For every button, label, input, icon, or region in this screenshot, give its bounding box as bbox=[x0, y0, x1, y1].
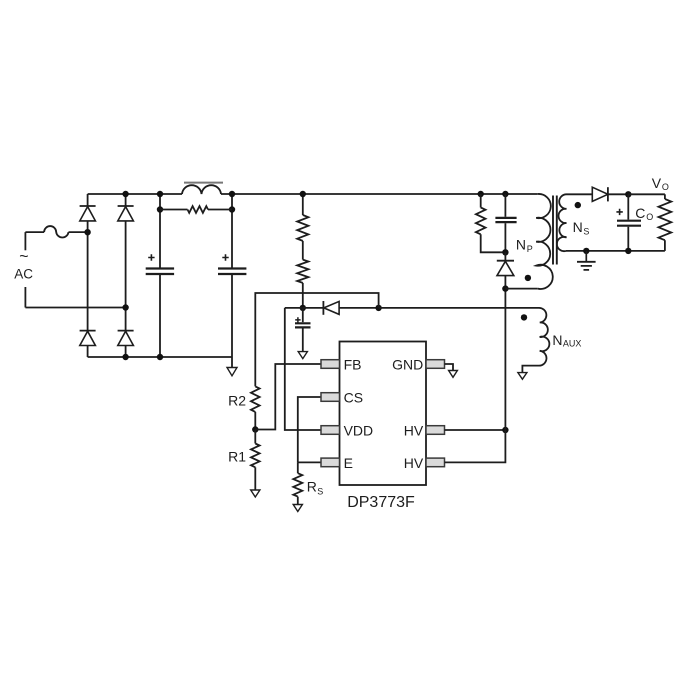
resistor load bbox=[659, 194, 672, 251]
wire secondary bottom rail bbox=[566, 250, 665, 252]
svg-text:N: N bbox=[573, 219, 583, 235]
op-amp U1 DP3773F body bbox=[340, 342, 427, 486]
resistor RS bbox=[293, 462, 302, 504]
diode D4 bridge lower-right bbox=[118, 331, 134, 346]
pin CS bbox=[321, 393, 340, 402]
wire bulk cap C1 column bbox=[159, 194, 161, 357]
svg-text:E: E bbox=[344, 455, 353, 471]
AC source left upper lead bbox=[24, 232, 26, 250]
ground arrow GND pin bbox=[449, 371, 458, 378]
junction bridge bottom rail bbox=[122, 354, 128, 360]
pin GND bbox=[426, 360, 445, 369]
pin VDD bbox=[321, 426, 340, 435]
svg-text:~: ~ bbox=[19, 249, 28, 266]
svg-text:HV: HV bbox=[404, 423, 424, 439]
capacitor clamp bbox=[495, 194, 516, 252]
ground arrow bottom rail bbox=[227, 357, 237, 376]
svg-text:S: S bbox=[317, 486, 323, 496]
diode VDD rectifier bbox=[303, 301, 379, 315]
fuse F1 bbox=[44, 226, 68, 237]
transformer core bbox=[553, 196, 557, 265]
wire VDD node left stub bbox=[285, 307, 303, 309]
wire top rail after inductor bbox=[221, 193, 538, 195]
inductor L1 input filter bbox=[182, 185, 221, 194]
wire R2 to junction bbox=[254, 412, 256, 430]
wire bottom input rail bbox=[88, 356, 232, 358]
wire FB pin run bbox=[255, 364, 321, 430]
diode D3 bridge lower-left bbox=[80, 331, 96, 346]
earth ground secondary bbox=[577, 251, 596, 270]
label VO bbox=[652, 175, 669, 192]
resistor startup upper bbox=[297, 194, 308, 241]
svg-text:R1: R1 bbox=[228, 448, 246, 464]
capacitor C2 plates bbox=[218, 269, 246, 275]
wire output top bbox=[628, 193, 665, 195]
label NS bbox=[573, 219, 590, 237]
junction secondary ground node bbox=[583, 248, 589, 254]
svg-text:CS: CS bbox=[344, 390, 363, 406]
AC source left lower lead bbox=[24, 287, 26, 308]
pin HV lower bbox=[426, 458, 445, 467]
capacitor VDD plus sign bbox=[295, 317, 300, 322]
wire AC bottom to bridge bbox=[25, 307, 125, 309]
junction aux feedback node bbox=[375, 305, 381, 311]
inductor L1 core bar bbox=[184, 182, 223, 184]
junction bridge top rail bbox=[122, 191, 128, 197]
diode D1 bridge upper-left bbox=[80, 206, 96, 221]
label NP bbox=[516, 236, 533, 254]
junction primary bottom node bbox=[502, 285, 508, 291]
junction AC-bridge bottom node bbox=[122, 304, 128, 310]
wire CS pin run bbox=[298, 397, 321, 462]
svg-text:FB: FB bbox=[344, 357, 362, 373]
junction fuse-bridge node bbox=[84, 229, 90, 235]
capacitor CO plus sign bbox=[616, 209, 622, 215]
label RS bbox=[307, 479, 323, 497]
svg-text:AUX: AUX bbox=[563, 338, 582, 348]
wire bulk cap C2 column bbox=[231, 194, 233, 357]
wire GND pin to ground bbox=[445, 364, 454, 371]
diode output rectifier bbox=[592, 187, 628, 201]
diode D2 bridge upper-right bbox=[118, 206, 134, 221]
junction clamp resistor top bbox=[478, 191, 484, 197]
pin HV upper bbox=[426, 426, 445, 435]
pin FB bbox=[321, 360, 340, 369]
junction C2 damping resistor node bbox=[229, 206, 235, 212]
wire E pin run bbox=[298, 461, 321, 463]
ground arrow RS bbox=[293, 505, 302, 512]
resistor R1 bbox=[251, 430, 260, 491]
svg-text:AC: AC bbox=[14, 267, 33, 282]
junction HV primary node bbox=[502, 427, 508, 433]
AC source terminal top wire bbox=[25, 231, 44, 233]
ground arrow VDD cap bbox=[298, 352, 307, 359]
junction VDD node bbox=[300, 305, 306, 311]
ground arrow NAUX bbox=[518, 373, 527, 380]
polarity dot NP bbox=[525, 275, 531, 281]
svg-text:GND: GND bbox=[392, 357, 423, 373]
winding NS secondary bbox=[557, 194, 592, 251]
capacitor C1 plates bbox=[146, 269, 174, 275]
pin E bbox=[321, 458, 340, 467]
junction output node bbox=[625, 191, 631, 197]
junction R1 R2 FB node bbox=[252, 426, 258, 432]
label CO bbox=[635, 205, 653, 222]
svg-text:N: N bbox=[516, 236, 526, 252]
capacitor C1 plus sign bbox=[148, 254, 154, 260]
winding NAUX auxiliary bbox=[379, 308, 550, 373]
junction startup chain top rail bbox=[300, 191, 306, 197]
resistor clamp bbox=[476, 194, 506, 252]
wire bridge left column bbox=[87, 194, 89, 357]
polarity dot NS bbox=[575, 202, 581, 208]
diode clamp bbox=[497, 252, 514, 288]
svg-text:C: C bbox=[635, 205, 645, 221]
junction clamp RC node bbox=[502, 249, 508, 255]
svg-text:V: V bbox=[652, 175, 662, 191]
svg-text:R2: R2 bbox=[228, 393, 246, 409]
wire aux node to divider bbox=[255, 293, 378, 386]
svg-text:VDD: VDD bbox=[344, 423, 374, 439]
junction clamp cap top bbox=[502, 191, 508, 197]
svg-text:O: O bbox=[662, 182, 669, 192]
wire fuse to bridge bbox=[69, 231, 88, 233]
svg-text:S: S bbox=[583, 226, 589, 236]
junction C1 bottom rail bbox=[157, 354, 163, 360]
wire HV upper pin run bbox=[445, 429, 506, 431]
capacitor C2 plus sign bbox=[222, 254, 228, 260]
winding NP primary bbox=[505, 194, 552, 289]
resistor startup lower bbox=[297, 241, 308, 308]
capacitor VDD plates bbox=[295, 308, 311, 352]
junction C1 top rail bbox=[157, 191, 163, 197]
wire top DC bus rail bbox=[88, 193, 182, 195]
svg-text:N: N bbox=[552, 332, 562, 348]
label NAUX bbox=[552, 332, 581, 348]
junction CO bottom bbox=[625, 248, 631, 254]
resistor R2 bbox=[251, 386, 260, 412]
svg-text:O: O bbox=[646, 212, 653, 222]
svg-text:R: R bbox=[307, 479, 317, 495]
ground arrow R1 bbox=[251, 490, 260, 497]
wire bridge right column bbox=[125, 194, 127, 357]
svg-text:HV: HV bbox=[404, 455, 424, 471]
wire primary return vertical bbox=[445, 289, 506, 463]
resistor damping across L1 bbox=[160, 206, 232, 213]
svg-text:DP3773F: DP3773F bbox=[347, 494, 415, 511]
wire VDD pin run bbox=[285, 308, 321, 430]
junction C2 top rail bbox=[229, 191, 235, 197]
svg-text:P: P bbox=[527, 244, 533, 254]
junction C1 damping resistor node bbox=[157, 206, 163, 212]
polarity dot NAUX bbox=[521, 314, 527, 320]
capacitor CO output bbox=[617, 194, 641, 251]
